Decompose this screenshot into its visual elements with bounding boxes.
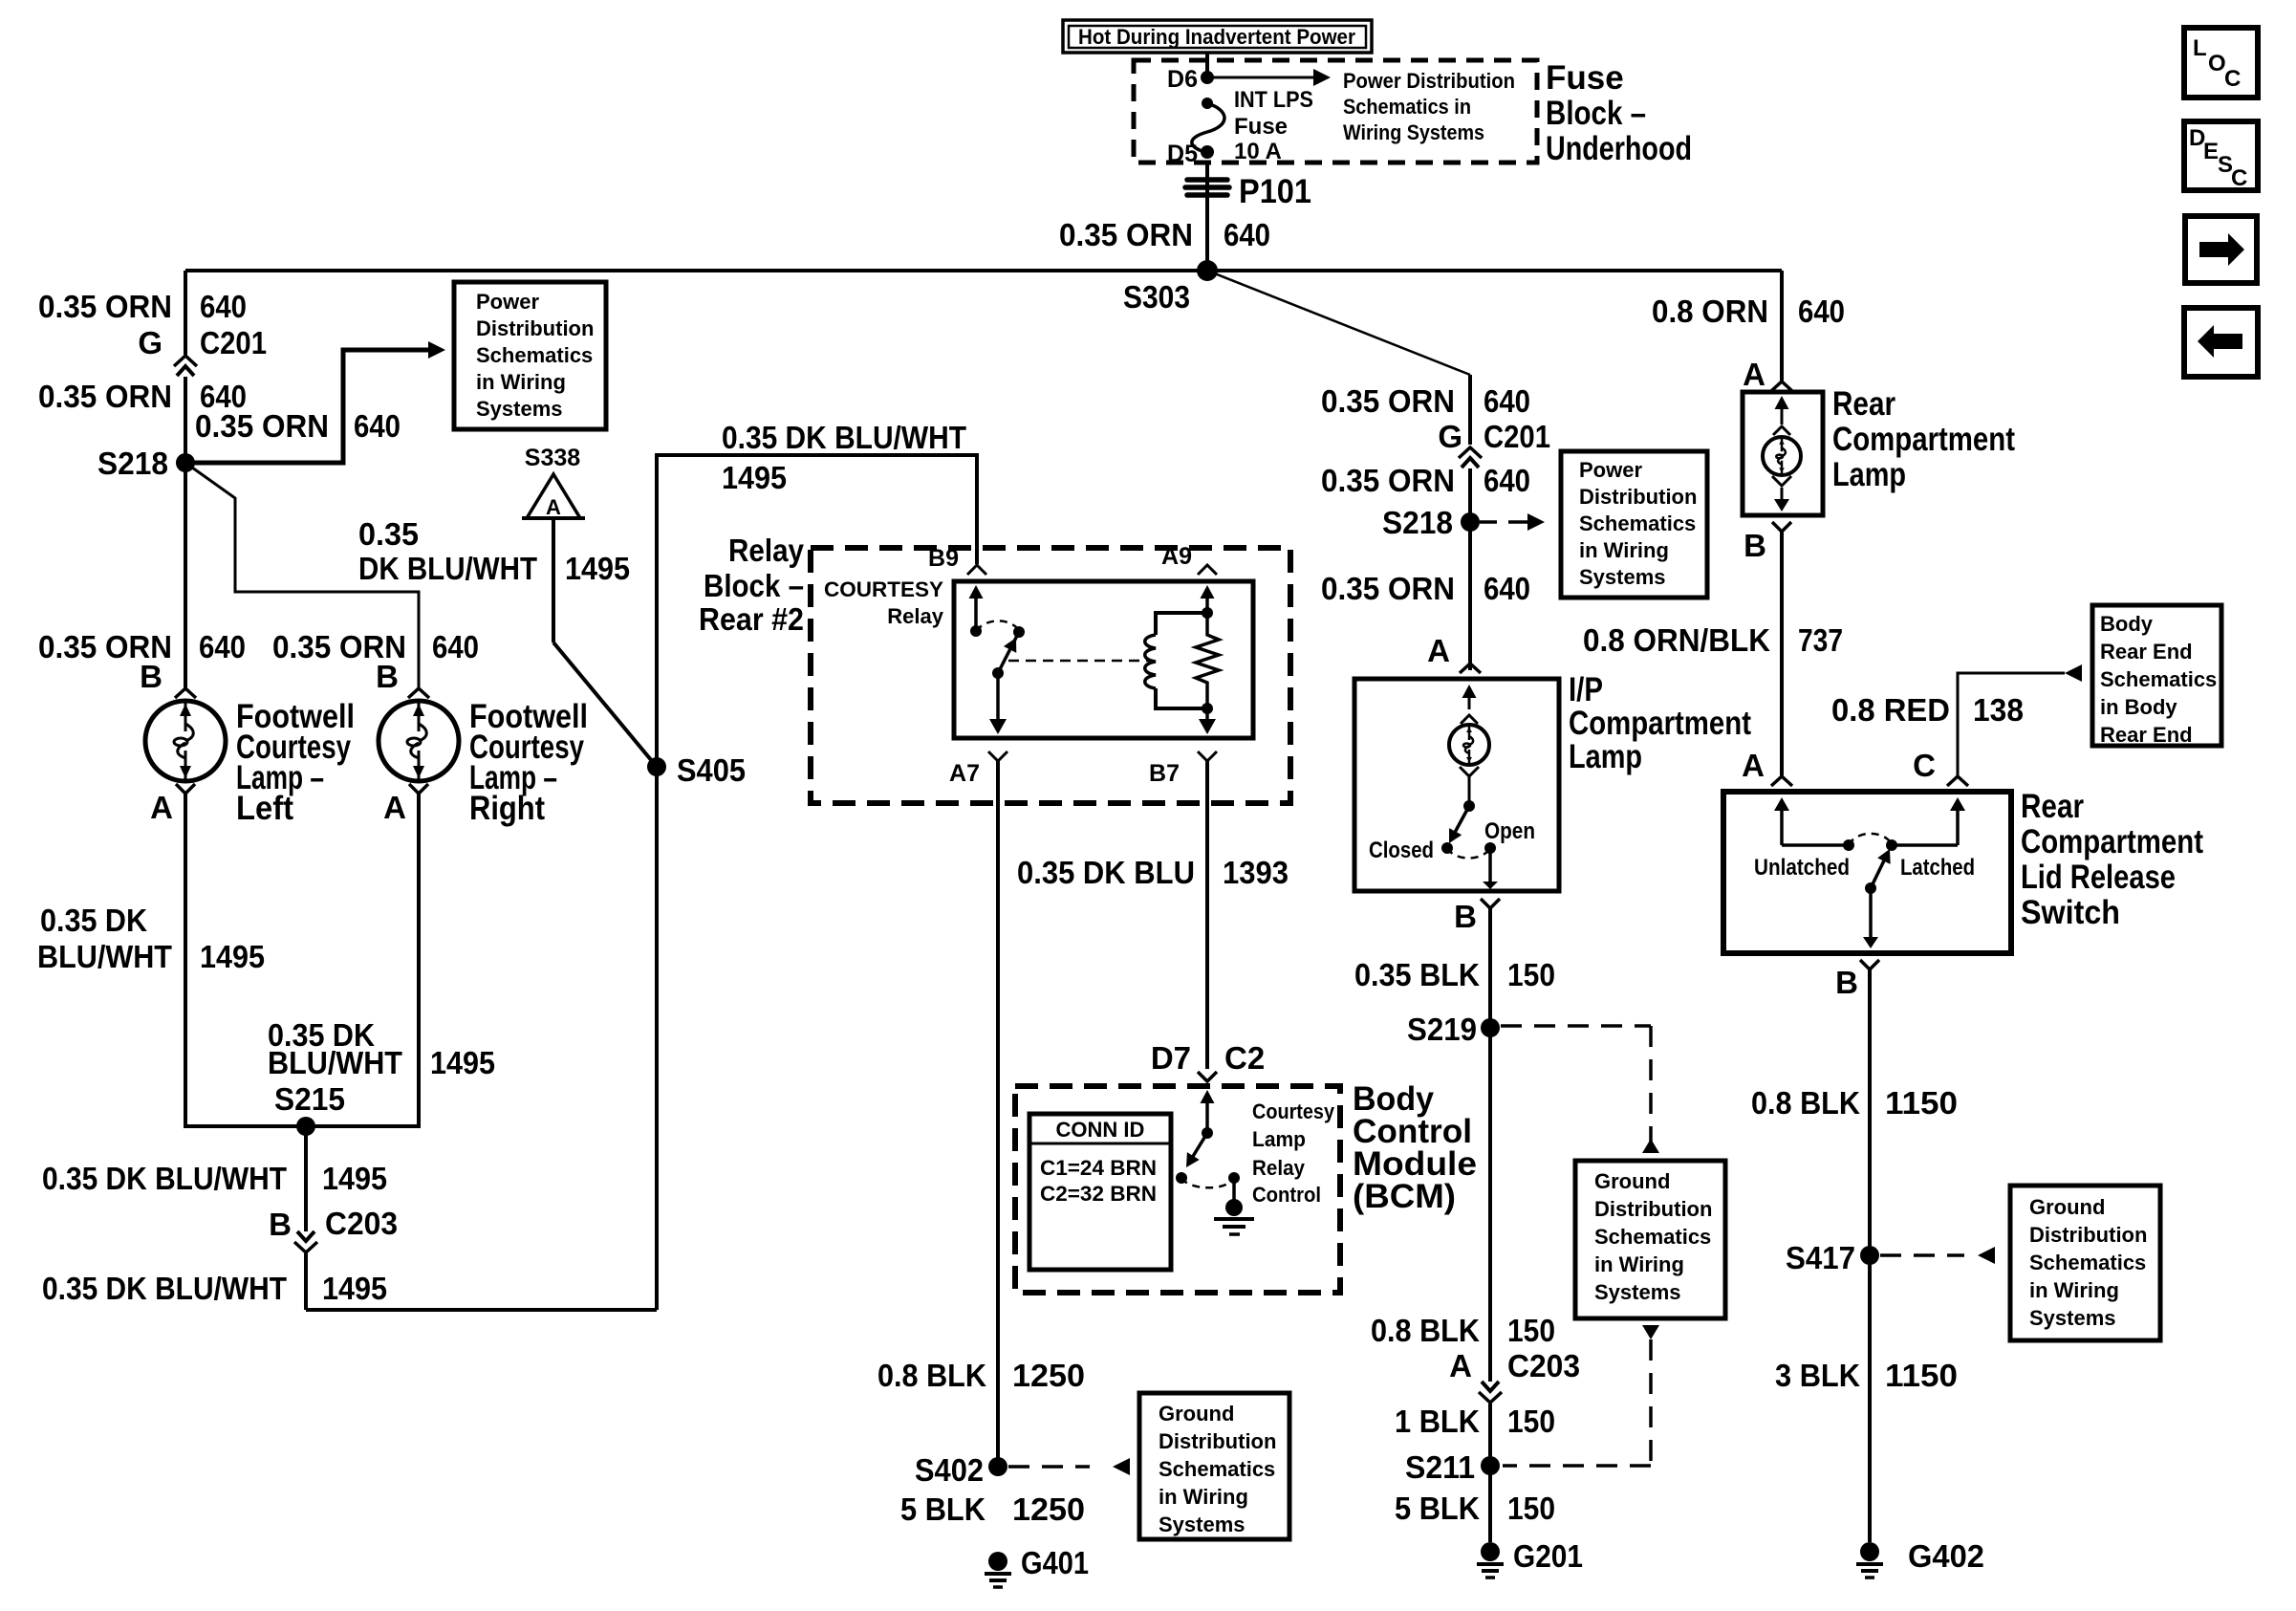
svg-text:in Wiring: in Wiring xyxy=(1579,538,1669,562)
svg-text:150: 150 xyxy=(1507,1491,1555,1526)
svg-text:S303: S303 xyxy=(1123,279,1190,315)
svg-text:CONN ID: CONN ID xyxy=(1056,1118,1145,1142)
svg-text:S211: S211 xyxy=(1405,1449,1475,1485)
svg-text:Rear: Rear xyxy=(1832,385,1895,423)
svg-text:D5: D5 xyxy=(1167,141,1198,167)
svg-text:Distribution: Distribution xyxy=(1594,1197,1712,1221)
svg-text:640: 640 xyxy=(1484,463,1530,498)
svg-text:0.8 BLK: 0.8 BLK xyxy=(877,1358,986,1393)
svg-text:1150: 1150 xyxy=(1885,1358,1958,1393)
svg-text:Systems: Systems xyxy=(1579,565,1666,589)
svg-text:BLU/WHT: BLU/WHT xyxy=(37,939,172,974)
svg-text:Schematics: Schematics xyxy=(1594,1225,1711,1249)
svg-text:1250: 1250 xyxy=(1012,1491,1085,1527)
svg-text:C201: C201 xyxy=(1484,419,1550,454)
svg-text:0.35 ORN: 0.35 ORN xyxy=(1321,383,1455,419)
svg-text:E: E xyxy=(2203,139,2219,164)
svg-text:A: A xyxy=(546,495,561,519)
svg-text:1393: 1393 xyxy=(1223,855,1289,890)
svg-text:Rear End: Rear End xyxy=(2100,640,2193,664)
svg-text:640: 640 xyxy=(1484,383,1530,419)
svg-text:D7: D7 xyxy=(1151,1040,1191,1076)
svg-text:B7: B7 xyxy=(1149,760,1180,787)
svg-text:Power Distribution: Power Distribution xyxy=(1343,69,1515,93)
svg-text:C: C xyxy=(1913,748,1936,783)
svg-text:Compartment: Compartment xyxy=(2021,823,2203,860)
svg-text:0.35: 0.35 xyxy=(358,516,419,552)
svg-text:0.35 DK BLU/WHT: 0.35 DK BLU/WHT xyxy=(722,420,966,455)
svg-text:B: B xyxy=(1744,528,1766,563)
svg-text:S218: S218 xyxy=(97,446,168,481)
svg-text:C: C xyxy=(2224,66,2241,92)
svg-text:Left: Left xyxy=(236,790,293,827)
svg-text:A: A xyxy=(1427,633,1450,668)
svg-text:Ground: Ground xyxy=(1159,1402,1234,1426)
svg-text:B: B xyxy=(1454,899,1477,934)
svg-text:5 BLK: 5 BLK xyxy=(900,1491,986,1527)
svg-text:C1=24 BRN: C1=24 BRN xyxy=(1040,1156,1157,1180)
svg-text:S338: S338 xyxy=(525,445,580,471)
svg-text:C2: C2 xyxy=(1224,1040,1265,1076)
svg-text:S219: S219 xyxy=(1407,1012,1477,1047)
svg-text:in Wiring: in Wiring xyxy=(476,370,566,394)
svg-text:640: 640 xyxy=(1798,294,1845,329)
svg-text:Open: Open xyxy=(1484,818,1535,844)
svg-text:L: L xyxy=(2193,35,2207,61)
svg-text:138: 138 xyxy=(1973,692,2024,728)
svg-text:Compartment: Compartment xyxy=(1569,705,1751,742)
svg-text:Schematics: Schematics xyxy=(476,343,593,367)
svg-text:B: B xyxy=(376,659,399,694)
svg-text:S405: S405 xyxy=(677,752,746,788)
svg-text:1 BLK: 1 BLK xyxy=(1395,1404,1480,1439)
svg-text:Schematics: Schematics xyxy=(2029,1251,2146,1274)
svg-text:Closed: Closed xyxy=(1369,838,1434,863)
svg-text:0.8 ORN/BLK: 0.8 ORN/BLK xyxy=(1583,622,1770,658)
svg-text:Lamp: Lamp xyxy=(1252,1127,1306,1151)
svg-text:150: 150 xyxy=(1507,1313,1555,1348)
svg-text:C: C xyxy=(2231,165,2247,191)
svg-text:B: B xyxy=(140,659,162,694)
svg-text:0.35 DK BLU/WHT: 0.35 DK BLU/WHT xyxy=(42,1271,287,1306)
svg-text:A7: A7 xyxy=(949,760,980,787)
svg-text:Power: Power xyxy=(476,290,539,314)
svg-text:1495: 1495 xyxy=(200,939,265,974)
svg-text:0.8 BLK: 0.8 BLK xyxy=(1751,1085,1860,1121)
svg-text:0.35 ORN: 0.35 ORN xyxy=(195,408,329,444)
svg-text:Schematics: Schematics xyxy=(2100,667,2217,691)
svg-text:Schematics in: Schematics in xyxy=(1343,95,1471,119)
svg-text:737: 737 xyxy=(1798,622,1843,658)
svg-text:(BCM): (BCM) xyxy=(1353,1178,1456,1215)
svg-text:Wiring Systems: Wiring Systems xyxy=(1343,120,1484,144)
svg-text:B: B xyxy=(1835,965,1858,1000)
svg-text:Unlatched: Unlatched xyxy=(1754,855,1850,881)
svg-text:C201: C201 xyxy=(200,325,267,360)
svg-text:1495: 1495 xyxy=(722,460,787,495)
svg-text:INT LPS: INT LPS xyxy=(1234,87,1313,113)
svg-text:Relay: Relay xyxy=(887,604,943,628)
svg-text:Relay: Relay xyxy=(1252,1156,1306,1180)
svg-text:Schematics: Schematics xyxy=(1159,1457,1275,1481)
svg-text:0.35 ORN: 0.35 ORN xyxy=(1059,217,1193,252)
svg-text:10 A: 10 A xyxy=(1234,139,1282,164)
svg-text:Compartment: Compartment xyxy=(1832,421,2015,458)
svg-text:S417: S417 xyxy=(1786,1240,1855,1275)
svg-text:150: 150 xyxy=(1507,1404,1555,1439)
svg-text:640: 640 xyxy=(354,408,401,444)
svg-text:C203: C203 xyxy=(1507,1348,1580,1383)
svg-text:Latched: Latched xyxy=(1900,855,1975,881)
svg-text:0.8 RED: 0.8 RED xyxy=(1831,692,1950,728)
svg-text:D6: D6 xyxy=(1167,66,1198,93)
svg-text:G: G xyxy=(138,325,162,360)
svg-text:Systems: Systems xyxy=(476,397,563,421)
svg-text:1495: 1495 xyxy=(430,1045,495,1080)
svg-text:C2=32 BRN: C2=32 BRN xyxy=(1040,1182,1157,1206)
svg-text:A: A xyxy=(1743,357,1765,392)
svg-text:B9: B9 xyxy=(928,545,959,572)
svg-text:G401: G401 xyxy=(1021,1545,1089,1580)
svg-text:0.8 ORN: 0.8 ORN xyxy=(1652,294,1768,329)
svg-text:3 BLK: 3 BLK xyxy=(1775,1358,1860,1393)
svg-text:Systems: Systems xyxy=(1159,1513,1245,1536)
svg-text:A: A xyxy=(1449,1348,1472,1383)
svg-text:A: A xyxy=(383,790,406,825)
svg-text:Block –: Block – xyxy=(1546,95,1646,132)
svg-text:0.35 ORN: 0.35 ORN xyxy=(1321,463,1455,498)
svg-text:in Wiring: in Wiring xyxy=(1159,1485,1248,1509)
svg-text:Distribution: Distribution xyxy=(2029,1223,2147,1247)
svg-text:Ground: Ground xyxy=(1594,1169,1670,1193)
svg-text:640: 640 xyxy=(200,289,247,324)
svg-text:0.35 DK: 0.35 DK xyxy=(40,903,147,938)
svg-text:150: 150 xyxy=(1507,957,1555,992)
svg-text:A: A xyxy=(1742,748,1765,783)
svg-text:5 BLK: 5 BLK xyxy=(1395,1491,1480,1526)
svg-text:BLU/WHT: BLU/WHT xyxy=(268,1045,402,1080)
svg-text:640: 640 xyxy=(1224,217,1270,252)
svg-text:Lamp: Lamp xyxy=(1832,456,1906,493)
svg-text:Distribution: Distribution xyxy=(476,316,594,340)
svg-text:Distribution: Distribution xyxy=(1579,485,1697,509)
svg-text:Lamp: Lamp xyxy=(1569,738,1642,775)
svg-text:Block –: Block – xyxy=(704,568,804,603)
svg-text:Right: Right xyxy=(469,790,545,827)
svg-text:in Wiring: in Wiring xyxy=(2029,1278,2119,1302)
svg-text:1250: 1250 xyxy=(1012,1358,1085,1393)
svg-text:1495: 1495 xyxy=(322,1271,387,1306)
svg-text:Ground: Ground xyxy=(2029,1195,2105,1219)
svg-text:Fuse: Fuse xyxy=(1546,59,1624,97)
svg-text:A9: A9 xyxy=(1161,543,1192,570)
svg-text:1150: 1150 xyxy=(1885,1085,1958,1121)
svg-text:Switch: Switch xyxy=(2021,894,2120,931)
svg-text:Distribution: Distribution xyxy=(1159,1429,1276,1453)
svg-text:Rear End: Rear End xyxy=(2100,723,2193,747)
svg-text:in Wiring: in Wiring xyxy=(1594,1252,1684,1276)
svg-text:0.35 DK BLU/WHT: 0.35 DK BLU/WHT xyxy=(42,1161,287,1196)
svg-text:Rear #2: Rear #2 xyxy=(699,601,804,637)
svg-text:G201: G201 xyxy=(1513,1538,1583,1574)
svg-text:C203: C203 xyxy=(325,1206,398,1241)
svg-text:0.35 BLK: 0.35 BLK xyxy=(1354,957,1480,992)
svg-text:COURTESY: COURTESY xyxy=(824,577,943,601)
svg-text:640: 640 xyxy=(432,629,479,664)
svg-text:640: 640 xyxy=(1484,571,1530,606)
svg-text:in Body: in Body xyxy=(2100,695,2177,719)
svg-text:S215: S215 xyxy=(274,1081,345,1117)
svg-text:DK BLU/WHT: DK BLU/WHT xyxy=(358,551,537,586)
svg-text:Power: Power xyxy=(1579,458,1642,482)
svg-text:Relay: Relay xyxy=(728,533,805,568)
svg-text:Control: Control xyxy=(1252,1183,1321,1207)
svg-text:I/P: I/P xyxy=(1569,671,1603,708)
svg-text:0.8 BLK: 0.8 BLK xyxy=(1371,1313,1480,1348)
svg-text:A: A xyxy=(150,790,173,825)
svg-text:Schematics: Schematics xyxy=(1579,512,1696,535)
svg-text:O: O xyxy=(2208,51,2226,76)
svg-text:Systems: Systems xyxy=(1594,1280,1681,1304)
svg-text:B: B xyxy=(269,1207,292,1242)
svg-text:Rear: Rear xyxy=(2021,788,2084,825)
svg-text:Underhood: Underhood xyxy=(1546,130,1692,167)
svg-text:Courtesy: Courtesy xyxy=(1252,1099,1335,1123)
svg-text:S218: S218 xyxy=(1382,505,1453,540)
svg-text:P101: P101 xyxy=(1239,173,1311,210)
svg-text:G: G xyxy=(1438,419,1462,454)
svg-text:1495: 1495 xyxy=(322,1161,387,1196)
svg-text:0.35 ORN: 0.35 ORN xyxy=(38,379,172,414)
svg-text:S402: S402 xyxy=(915,1452,984,1488)
svg-text:Lid Release: Lid Release xyxy=(2021,859,2176,896)
svg-text:0.35 ORN: 0.35 ORN xyxy=(38,289,172,324)
svg-text:G402: G402 xyxy=(1908,1538,1984,1574)
svg-text:1495: 1495 xyxy=(565,551,630,586)
svg-text:0.35 ORN: 0.35 ORN xyxy=(1321,571,1455,606)
svg-text:Fuse: Fuse xyxy=(1234,114,1288,140)
svg-text:640: 640 xyxy=(199,629,246,664)
svg-text:Systems: Systems xyxy=(2029,1306,2116,1330)
svg-text:Body: Body xyxy=(2100,612,2154,636)
svg-text:0.35 DK BLU: 0.35 DK BLU xyxy=(1017,855,1195,890)
svg-text:Hot During Inadvertent Power: Hot During Inadvertent Power xyxy=(1078,25,1355,49)
